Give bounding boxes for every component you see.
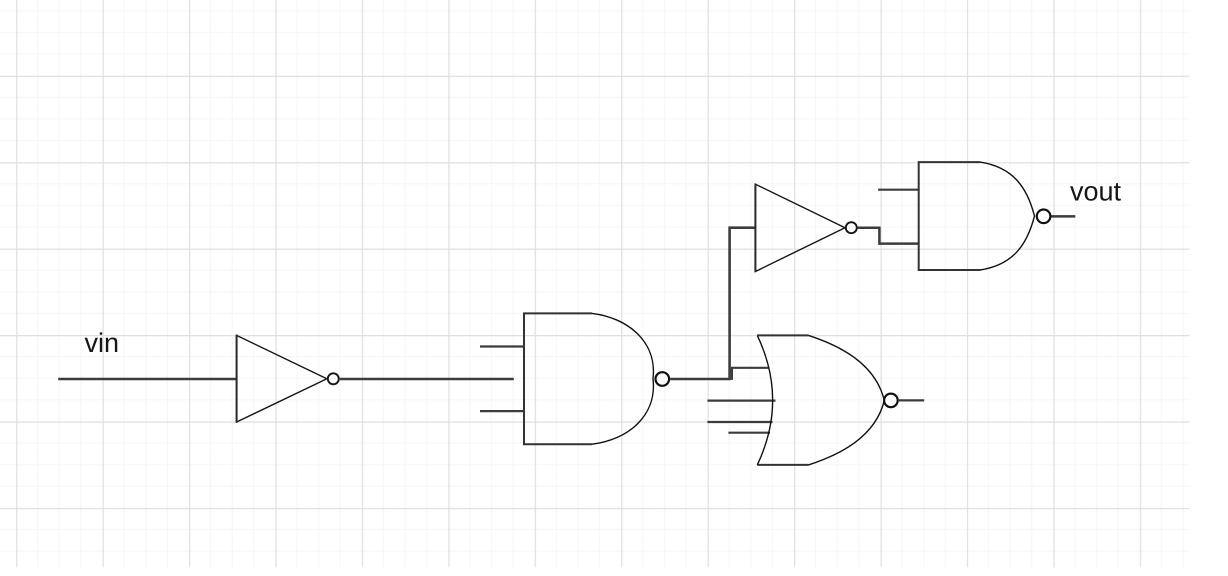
- nor U5 top edge: [757, 334, 808, 336]
- node vin label: [85, 332, 118, 352]
- node vout label: [1070, 183, 1121, 201]
- nor U5 bottom edge: [757, 464, 808, 466]
- nor U5 curved body: [757, 335, 884, 465]
- wire U3 output stepping down to U4 lower input: [858, 228, 919, 244]
- wire vout: [1052, 215, 1076, 218]
- nand U4 arc: [980, 162, 1035, 270]
- inverter U1 left edge: [236, 335, 238, 423]
- nand U2 top input leg: [480, 345, 524, 347]
- inverter U3 left edge: [754, 184, 756, 273]
- nand U2 body: [524, 313, 592, 444]
- wire NOR U5 output: [899, 399, 924, 401]
- wire NOR U5 dangling input C: [707, 421, 772, 423]
- inverter U3 output bubble: [846, 222, 857, 233]
- wire junction to NOR U5 first input: [732, 368, 770, 380]
- inverter U1 triangle: [237, 335, 327, 422]
- nand U2 output bubble: [656, 372, 670, 386]
- wire U1 output to U2 input: [340, 378, 514, 381]
- wire vin input: [58, 378, 236, 381]
- wire NOR U5 dangling input B: [707, 400, 775, 402]
- wire U2 output to junction, up and into U3: [670, 228, 755, 379]
- inverter U3 triangle: [755, 184, 845, 271]
- wire NOR U5 input leg D: [728, 432, 770, 434]
- nand U4 body: [919, 162, 980, 270]
- nand U2 arc: [592, 313, 653, 444]
- nand U2 bottom input leg: [480, 410, 524, 412]
- nor U5 output bubble: [884, 394, 898, 408]
- inverter U1 output bubble: [328, 373, 339, 384]
- nand U4 output bubble: [1037, 210, 1051, 224]
- nand U4 top input leg: [878, 189, 919, 191]
